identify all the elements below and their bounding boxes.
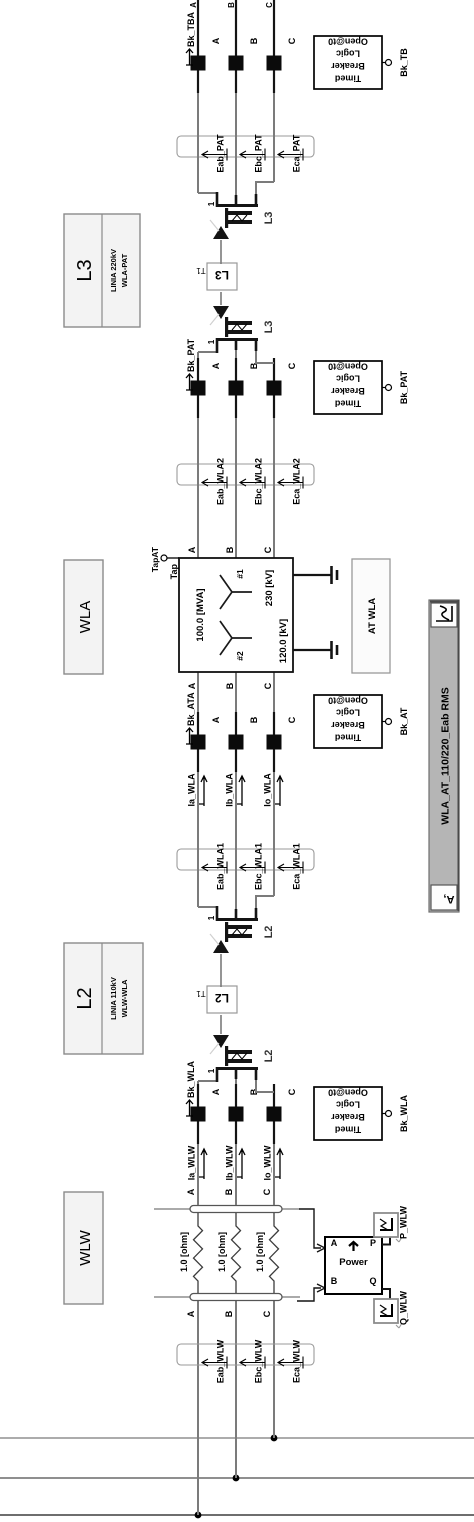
svg-text:T1: T1: [196, 266, 206, 275]
svg-text:Bk_AT: Bk_AT: [399, 707, 409, 735]
bus rail 2 (left of resistors): [154, 1294, 300, 1301]
bus line phase B vertical: [0, 1477, 474, 1479]
svg-text:Bk_PAT: Bk_PAT: [399, 370, 409, 404]
minimized graph frame WLA_AT_110/220_Eab RMS: [429, 600, 459, 912]
svg-text:L3: L3: [74, 259, 96, 281]
svg-text:WLW-WLA: WLW-WLA: [120, 979, 129, 1017]
svg-text:AT WLA: AT WLA: [367, 598, 378, 634]
svg-text:B: B: [224, 1188, 234, 1195]
svg-text:Q: Q: [369, 1276, 376, 1286]
transformer AT box: [179, 558, 293, 672]
svg-text:Q_WLW: Q_WLW: [399, 1290, 409, 1325]
svg-text:B: B: [331, 1276, 338, 1286]
wire power Q output: [382, 1289, 390, 1300]
breaker set Brk_WLA: [186, 1060, 297, 1144]
label box AT WLA: [352, 559, 390, 673]
svg-text:Eab_WLA2: Eab_WLA2: [216, 458, 226, 505]
svg-text:LINIA 110kV: LINIA 110kV: [109, 977, 118, 1020]
svg-text:A: A: [211, 716, 221, 723]
svg-text:Bk_WLA: Bk_WLA: [186, 1060, 196, 1098]
svg-text:C: C: [287, 362, 297, 369]
svg-text:Eca_WLA1: Eca_WLA1: [292, 843, 302, 890]
svg-text:P: P: [370, 1238, 376, 1248]
svg-text:1: 1: [207, 339, 216, 344]
junction dot bus A: [195, 1512, 202, 1519]
rail1 port letters A B C: [186, 1188, 272, 1195]
svg-text:B: B: [249, 37, 259, 44]
current meters Ia_WLW Ib_WLW Io_WLW: [187, 1145, 284, 1180]
svg-text:T1: T1: [196, 989, 206, 998]
svg-text:A: A: [186, 1188, 196, 1195]
svg-text:B: B: [225, 546, 235, 553]
wire phases L2 to Eab_WLA1 and Brk_ATA: [198, 772, 274, 909]
voltmeter block Eab_PAT: [177, 134, 314, 173]
svg-text:Logic: Logic: [336, 1100, 360, 1110]
svg-text:A: A: [187, 682, 197, 689]
svg-text:#2: #2: [235, 651, 245, 661]
svg-text:1: 1: [207, 201, 216, 206]
svg-text:Open@t0: Open@t0: [328, 36, 368, 46]
svg-text:Ia_WLA: Ia_WLA: [187, 773, 197, 807]
svg-text:Ebc_WLA2: Ebc_WLA2: [254, 458, 264, 505]
svg-text:Breaker: Breaker: [331, 1112, 365, 1122]
timed breaker logic Brk_TB: [314, 36, 409, 89]
wire L2 right span: [220, 954, 222, 987]
bus line phase C vertical: [0, 1437, 474, 1439]
transformer rating 100.0 MVA: [195, 588, 206, 641]
svg-text:P_WLW: P_WLW: [399, 1205, 409, 1239]
tline L2 left terminal: [198, 1035, 275, 1092]
timed breaker logic Brk_WLA: [314, 1087, 409, 1140]
svg-text:C: C: [262, 1188, 272, 1195]
svg-text:1: 1: [207, 915, 216, 920]
power block (P,Q meter): [325, 1237, 382, 1294]
transformer ground 1: [293, 566, 337, 584]
wire L3 left span: [220, 292, 222, 305]
svg-text:C: C: [287, 716, 297, 723]
current meters Ia_WLA Ib_WLA Io_WLA: [187, 773, 284, 807]
svg-text:Eca_WLW: Eca_WLW: [292, 1339, 302, 1383]
wire phase C bus to rail2: [273, 1301, 275, 1438]
wire phases Brk_TBA to right edge: [198, 0, 274, 33]
svg-text:230 [kV]: 230 [kV]: [264, 570, 275, 606]
resistor 1.0 ohm phase B: [217, 1213, 241, 1293]
breaker set Brk_ATA: [186, 692, 297, 772]
wire phases rail1 to Brk_WLA: [198, 1144, 274, 1205]
svg-text:TapAT: TapAT: [150, 546, 160, 572]
svg-text:L2: L2: [74, 987, 96, 1009]
wire phases transformer to Brk_PAT: [198, 418, 274, 558]
svg-text:Timed: Timed: [335, 1125, 361, 1135]
svg-text:C: C: [287, 37, 297, 44]
transformer tap terminal: [150, 546, 179, 579]
svg-text:Logic: Logic: [336, 708, 360, 718]
svg-text:C: C: [265, 2, 274, 8]
svg-text:Logic: Logic: [336, 49, 360, 59]
breaker set Brk_PAT: [186, 338, 297, 418]
voltmeter block Eab_WLA1: [177, 843, 314, 890]
output channel Q_WLW: [374, 1290, 409, 1328]
tline L2 right terminal: [198, 896, 275, 953]
svg-text:WLA_AT_110/220_Eab RMS: WLA_AT_110/220_Eab RMS: [440, 687, 452, 825]
svg-text:Timed: Timed: [335, 733, 361, 743]
svg-text:Eab_WLA1: Eab_WLA1: [216, 843, 226, 890]
tline L3 right terminal: [198, 182, 275, 239]
wire L2 left span: [220, 1015, 222, 1034]
svg-text:1: 1: [207, 1068, 216, 1073]
transformer voltage 230 kV: [264, 570, 275, 606]
svg-text:WLW: WLW: [77, 1229, 94, 1265]
svg-text:Open@t0: Open@t0: [328, 695, 368, 705]
svg-text:C: C: [263, 546, 273, 553]
section label box L3 LINIA 220kV: [64, 214, 140, 327]
svg-text:1.0 [ohm]: 1.0 [ohm]: [255, 1232, 265, 1272]
svg-text:Tap: Tap: [169, 564, 179, 580]
power block input wire A: [299, 1209, 325, 1252]
svg-text:Breaker: Breaker: [331, 720, 365, 730]
svg-text:Open@t0: Open@t0: [328, 1087, 368, 1097]
transformer ground 2: [293, 641, 337, 659]
svg-text:#1: #1: [235, 569, 245, 579]
svg-text:Eab_WLW: Eab_WLW: [216, 1339, 226, 1383]
wire phases Brk_WLA to L2 end: [198, 1079, 236, 1084]
resistor 1.0 ohm phase C: [255, 1213, 279, 1293]
svg-text:C: C: [262, 1310, 272, 1317]
timed breaker logic Brk_AT: [314, 695, 409, 748]
svg-text:Bk_WLA: Bk_WLA: [399, 1095, 409, 1133]
svg-text:Io_WLA: Io_WLA: [263, 773, 273, 807]
svg-text:Bk_PAT: Bk_PAT: [186, 338, 196, 372]
svg-text:A: A: [189, 2, 198, 8]
svg-text:A: A: [211, 37, 221, 44]
svg-text:Ebc_PAT: Ebc_PAT: [254, 134, 264, 173]
svg-text:WLA: WLA: [77, 601, 94, 634]
svg-text:1.0 [ohm]: 1.0 [ohm]: [217, 1232, 227, 1272]
section label box WLW: [64, 1192, 103, 1304]
svg-text:L2: L2: [263, 926, 275, 939]
svg-text:LINIA 220kV: LINIA 220kV: [109, 249, 118, 292]
svg-text:B: B: [227, 2, 236, 8]
svg-text:C: C: [287, 1088, 297, 1095]
transformer winding #2 wye: [220, 621, 252, 661]
svg-text:Timed: Timed: [335, 399, 361, 409]
svg-text:Ebc_WLW: Ebc_WLW: [254, 1339, 264, 1383]
tline L3 left terminal: [198, 306, 275, 363]
svg-text:B: B: [224, 1310, 234, 1317]
svg-text:L2: L2: [215, 991, 229, 1005]
rail2 port letters A B C: [186, 1310, 272, 1317]
svg-text:Bk_TB: Bk_TB: [399, 48, 409, 77]
transformer winding #1 wye: [220, 569, 252, 609]
junction dot bus B: [233, 1475, 240, 1482]
svg-text:100.0 [MVA]: 100.0 [MVA]: [195, 588, 206, 641]
svg-text:L3: L3: [263, 212, 275, 225]
svg-text:A: A: [211, 1088, 221, 1095]
wire power P output: [382, 1236, 390, 1245]
svg-text:Bk_TBA: Bk_TBA: [186, 11, 196, 47]
svg-text:Ib_WLA: Ib_WLA: [225, 773, 235, 807]
svg-text:1.0 [ohm]: 1.0 [ohm]: [179, 1232, 189, 1272]
svg-text:Breaker: Breaker: [331, 386, 365, 396]
svg-text:Eca_PAT: Eca_PAT: [292, 134, 302, 172]
svg-text:Open@t0: Open@t0: [328, 361, 368, 371]
svg-text:Timed: Timed: [335, 74, 361, 84]
power block input wire B: [297, 1284, 325, 1301]
transformer port letters right: [187, 546, 273, 553]
transformer voltage 120.0 kV: [278, 619, 289, 663]
svg-text:120.0 [kV]: 120.0 [kV]: [278, 619, 289, 663]
breaker set Brk_TBA: [186, 11, 297, 93]
resistor 1.0 ohm phase A: [179, 1213, 203, 1293]
svg-text:Ib_WLW: Ib_WLW: [225, 1145, 235, 1180]
svg-text:Ebc_WLA1: Ebc_WLA1: [254, 843, 264, 890]
svg-text:Ia_WLW: Ia_WLW: [187, 1145, 197, 1180]
svg-text:WLA-PAT: WLA-PAT: [120, 253, 129, 287]
bus rail 1 (right of resistors): [154, 1206, 300, 1213]
svg-text:B: B: [249, 716, 259, 723]
junction dot bus C: [271, 1435, 278, 1442]
wire L3 right span: [220, 240, 222, 264]
svg-text:A: A: [211, 362, 221, 369]
svg-text:Io_WLW: Io_WLW: [263, 1145, 273, 1180]
wire phase B bus to rail2: [235, 1301, 237, 1478]
output channel P_WLW: [374, 1205, 409, 1242]
wire phases Brk_PAT to L3 end: [198, 350, 236, 358]
svg-text:Power: Power: [339, 1257, 368, 1268]
svg-text:Breaker: Breaker: [331, 61, 365, 71]
svg-text:A,: A,: [444, 893, 455, 905]
tline L2 name box T1: [196, 986, 237, 1013]
transformer port letters left: [187, 682, 273, 689]
svg-text:Bk_ATA: Bk_ATA: [186, 692, 196, 726]
voltmeter block Eab_WLA2: [177, 458, 314, 505]
svg-text:A: A: [186, 1310, 196, 1317]
wire phase A bus to rail2: [197, 1301, 199, 1515]
wire phases Brk_ATA to transformer: [198, 672, 274, 712]
svg-text:B: B: [225, 682, 235, 689]
svg-text:L3: L3: [263, 321, 275, 334]
svg-text:Eca_WLA2: Eca_WLA2: [292, 458, 302, 505]
wire phases L3 to Eab_PAT and Brk_TBA: [198, 93, 274, 195]
section label box WLA: [64, 560, 103, 674]
source end labels A B C: [189, 2, 274, 8]
voltmeter block Eab_WLW: [177, 1339, 314, 1383]
tline L3 name box T1: [196, 263, 237, 290]
svg-text:C: C: [263, 682, 273, 689]
section label box L2 LINIA 110kV: [64, 943, 143, 1054]
svg-text:A: A: [187, 546, 197, 553]
svg-text:Logic: Logic: [336, 374, 360, 384]
timed breaker logic Brk_PAT: [314, 361, 409, 414]
svg-text:Eab_PAT: Eab_PAT: [216, 134, 226, 173]
svg-text:A: A: [331, 1238, 338, 1248]
svg-text:L2: L2: [263, 1050, 275, 1063]
bus line phase A vertical: [0, 1514, 474, 1516]
svg-text:L3: L3: [215, 268, 229, 282]
